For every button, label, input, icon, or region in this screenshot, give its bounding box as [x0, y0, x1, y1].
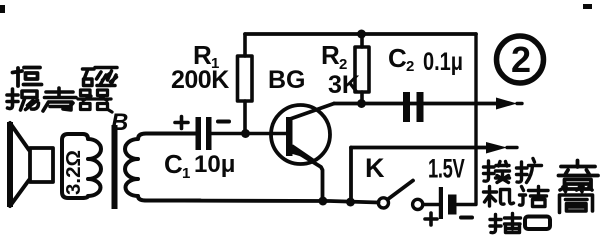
output arrow 2	[486, 142, 517, 154]
label 磁 (speaker caption line1 char2)	[83, 68, 118, 86]
svg-text:1.5V: 1.5V	[428, 153, 465, 183]
battery positive terminal contact	[413, 199, 423, 209]
label R2	[321, 40, 347, 73]
battery polarity -	[461, 216, 472, 220]
speaker horn	[7, 122, 29, 207]
svg-text:3K: 3K	[328, 71, 360, 99]
transformer secondary winding	[125, 134, 200, 201]
wire top supply rail	[245, 32, 476, 36]
battery negative plate	[448, 195, 457, 215]
capacitor C2 plates	[403, 92, 424, 122]
wire R1 top lead	[243, 34, 247, 56]
label K	[365, 153, 385, 183]
wire R2 top lead	[360, 34, 364, 47]
svg-text:1: 1	[182, 165, 190, 182]
node R2 bottom junction	[357, 99, 366, 108]
value 10μ	[194, 151, 235, 178]
wire right vertical (battery negative return)	[457, 34, 476, 205]
label C1	[164, 149, 190, 182]
node emitter junction	[318, 197, 327, 206]
svg-text:3.2Ω: 3.2Ω	[62, 150, 85, 195]
label 筒 (output caption char6)	[560, 187, 593, 213]
svg-text:2: 2	[511, 39, 531, 80]
wire R1 bottom lead	[243, 101, 247, 134]
label 接 (output caption char1)	[484, 161, 510, 183]
wire collector output line	[334, 102, 498, 106]
label 扩 (output caption char2)	[517, 159, 542, 183]
label 恒 (speaker caption line1 char1)	[13, 68, 42, 87]
label C2	[388, 43, 414, 75]
value 1.5V	[428, 153, 465, 183]
value 200K	[171, 66, 229, 94]
svg-text:B: B	[111, 109, 128, 136]
wire bottom emitter rail	[145, 201, 379, 203]
label 口 (output caption char8)	[525, 217, 550, 230]
scan speck top-left	[0, 5, 5, 13]
wire battery positive lead	[423, 203, 439, 206]
output arrow 1	[496, 98, 522, 110]
svg-text:200K: 200K	[171, 66, 229, 94]
wire C1 to base with R1 tap	[211, 132, 287, 136]
label BG	[268, 66, 306, 94]
transformer core	[112, 125, 118, 209]
switch K pivot contact	[378, 198, 388, 208]
node base/R1 junction	[241, 129, 250, 138]
label 机 (output caption char4)	[484, 187, 514, 207]
C1 polarity -	[218, 120, 229, 124]
battery polarity +	[425, 213, 437, 225]
node R2 top junction	[357, 30, 366, 39]
transformer B primary winding loop	[62, 134, 101, 198]
speaker driver	[30, 148, 53, 182]
label 话 (output caption char5)	[520, 187, 549, 207]
svg-text:C: C	[164, 149, 183, 179]
wire K branch vertical	[349, 148, 353, 203]
svg-text:2: 2	[406, 58, 414, 75]
label 音 (output caption char3)	[559, 161, 599, 190]
wire R2 bottom lead	[360, 92, 364, 104]
svg-text:BG: BG	[268, 66, 306, 94]
value 3K	[328, 71, 360, 99]
resistor R2	[355, 47, 369, 92]
value 3.2Ω (primary impedance)	[62, 150, 85, 195]
label 声 (speaker caption line2 char2)	[43, 88, 76, 111]
transistor BG	[271, 104, 334, 202]
label 插 (output caption char7)	[490, 214, 521, 233]
figure number circle 2	[497, 36, 544, 83]
switch K lever	[388, 181, 414, 200]
value 0.1μ	[423, 48, 463, 76]
label 扬 (speaker caption line2 char1)	[7, 89, 39, 110]
svg-text:10μ: 10μ	[194, 151, 235, 178]
svg-text:K: K	[365, 153, 385, 183]
svg-text:R: R	[321, 40, 340, 70]
label B (transformer)	[111, 109, 128, 136]
wire emitter output line 2	[351, 146, 488, 150]
resistor R1	[238, 56, 253, 101]
capacitor C1 plates	[196, 117, 212, 150]
label R1	[193, 40, 219, 72]
svg-text:0.1μ: 0.1μ	[423, 48, 463, 76]
scan speck top-right	[583, 4, 592, 9]
node K branch junction	[346, 198, 355, 207]
battery positive plate	[439, 187, 443, 219]
label 器 (speaker caption line2 char3)	[78, 90, 112, 112]
svg-text:C: C	[388, 43, 407, 73]
C1 polarity +	[175, 117, 188, 129]
